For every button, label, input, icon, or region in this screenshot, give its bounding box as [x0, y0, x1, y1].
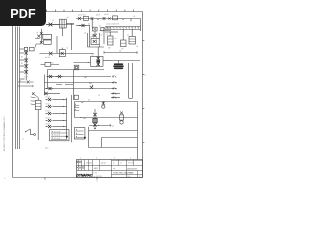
svg-text:3: 3 — [114, 158, 115, 160]
svg-text:h3: h3 — [52, 62, 54, 64]
svg-text:PDF: PDF — [10, 7, 36, 21]
svg-text:x4: x4 — [127, 35, 129, 37]
svg-text:w2: w2 — [119, 51, 121, 53]
svg-text:m1 k7: m1 k7 — [45, 57, 50, 59]
svg-text:b1 c2 d3: b1 c2 d3 — [54, 135, 60, 137]
svg-text:1:10: 1:10 — [127, 176, 130, 178]
svg-text:k3 u8: k3 u8 — [46, 123, 50, 125]
svg-text:tr 12: tr 12 — [94, 172, 97, 175]
svg-text:ab 12: ab 12 — [101, 162, 106, 164]
svg-text:1: 1 — [80, 158, 81, 160]
svg-text:ELECTRIC DIAGRAM: ELECTRIC DIAGRAM — [114, 172, 134, 175]
svg-text:k9: k9 — [90, 37, 92, 39]
svg-text:x3: x3 — [115, 38, 117, 40]
svg-text:wy: wy — [19, 80, 21, 82]
svg-text:d2: d2 — [88, 23, 90, 25]
svg-text:r6 w3: r6 w3 — [104, 14, 108, 16]
svg-text:DYNAPAC: DYNAPAC — [76, 174, 92, 178]
svg-text:b1 c2 d3: b1 c2 d3 — [54, 138, 60, 140]
svg-text:1: 1 — [139, 176, 140, 178]
svg-text:t8: t8 — [134, 15, 136, 18]
svg-text:q3: q3 — [67, 17, 69, 19]
svg-text:a4: a4 — [84, 32, 86, 34]
svg-text:w10: w10 — [45, 148, 48, 150]
svg-text:s1: s1 — [22, 139, 24, 141]
svg-text:k3 u8: k3 u8 — [46, 96, 50, 98]
svg-text:b2 f1: b2 f1 — [96, 15, 100, 17]
svg-text:k3 u8: k3 u8 — [46, 117, 50, 119]
svg-text:g2: g2 — [37, 32, 39, 34]
svg-text:k3 u8: k3 u8 — [46, 103, 50, 105]
svg-text:wrt tre2: wrt tre2 — [86, 161, 92, 164]
svg-text:f4: f4 — [99, 95, 101, 97]
svg-text:a1 b2 c3 d4 e5 f6: a1 b2 c3 d4 e5 f6 — [106, 23, 119, 25]
svg-text:t2: t2 — [67, 47, 68, 50]
svg-text:k5 h2 m4: k5 h2 m4 — [78, 15, 85, 17]
svg-text:tr u2: tr u2 — [24, 75, 27, 78]
svg-text:wb: wb — [113, 168, 115, 170]
svg-text:x2: x2 — [106, 34, 108, 36]
svg-text:m9: m9 — [121, 49, 123, 51]
svg-text:4812: 4812 — [94, 168, 98, 170]
svg-text:en 4567-01: en 4567-01 — [94, 176, 103, 178]
svg-text:b1 c2 d3: b1 c2 d3 — [54, 131, 60, 133]
svg-text:m8: m8 — [108, 47, 110, 49]
svg-text:p1: p1 — [99, 25, 101, 27]
svg-text:2: 2 — [145, 75, 146, 77]
svg-text:2: 2 — [96, 158, 97, 160]
svg-text:A1234567 COPYRIGHT DRAWING 00-: A1234567 COPYRIGHT DRAWING 00-1 — [3, 115, 6, 151]
svg-text:n2: n2 — [101, 34, 103, 36]
svg-text:h6: h6 — [88, 99, 90, 101]
svg-text:u1: u1 — [52, 20, 54, 22]
svg-text:CM1234 567: CM1234 567 — [127, 168, 137, 170]
svg-text:k2: k2 — [92, 55, 94, 57]
svg-text:s6: s6 — [136, 46, 138, 48]
svg-text:ty: ty — [113, 161, 114, 164]
svg-text:OP 123: OP 123 — [128, 162, 134, 164]
svg-text:k3 u8: k3 u8 — [46, 110, 50, 112]
svg-text:y1: y1 — [112, 126, 114, 128]
svg-text:4: 4 — [130, 158, 131, 160]
